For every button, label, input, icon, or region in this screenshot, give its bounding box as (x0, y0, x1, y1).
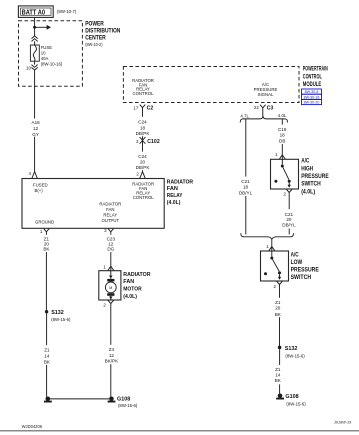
powertrain control module box (123, 66, 328, 103)
wire Z1 14 BK left (41, 313, 53, 396)
svg-text:C2: C2 (147, 106, 154, 112)
svg-text:RELAY: RELAY (103, 212, 117, 217)
wire C18 18 DB 4.0L branch (276, 119, 290, 159)
svg-text:3: 3 (104, 228, 107, 233)
label A/C high pressure switch (301, 158, 329, 196)
svg-text:(8W-15-6): (8W-15-6) (285, 353, 305, 358)
label radiator fan motor (123, 272, 150, 300)
merge brace (241, 233, 294, 239)
svg-text:RADIATOR: RADIATOR (167, 179, 194, 185)
svg-text:10: 10 (26, 65, 31, 70)
label radiator fan relay (167, 179, 194, 206)
svg-text:HIGH: HIGH (301, 165, 313, 172)
svg-text:A/C: A/C (301, 158, 310, 165)
svg-text:J018W-19: J018W-19 (333, 421, 352, 425)
svg-text:C18: C18 (278, 127, 287, 132)
svg-text:BK: BK (275, 378, 282, 383)
svg-text:A/C: A/C (291, 251, 300, 258)
relay pin 1 connector (40, 229, 49, 234)
ground bus wire (50, 398, 109, 400)
svg-text:DISTRIBUTION: DISTRIBUTION (85, 28, 120, 35)
svg-text:8W-30-8: 8W-30-8 (305, 90, 319, 94)
svg-text:(8W-15-6): (8W-15-6) (51, 317, 71, 322)
svg-text:S132: S132 (285, 346, 298, 352)
svg-text:FAN: FAN (106, 207, 114, 212)
svg-text:20: 20 (140, 160, 146, 165)
svg-text:C24: C24 (138, 154, 147, 159)
svg-text:(8W-15-6): (8W-15-6) (118, 403, 138, 408)
svg-text:A16: A16 (32, 120, 41, 125)
split brace 4.7L / 4.0L (240, 113, 287, 123)
svg-text:SIGNAL: SIGNAL (258, 92, 274, 97)
label A/C low pressure switch (291, 251, 319, 281)
svg-text:4.0L: 4.0L (278, 113, 287, 118)
svg-text:C102: C102 (147, 139, 160, 145)
svg-text:PRESSURE: PRESSURE (301, 173, 329, 180)
svg-text:10: 10 (41, 50, 46, 55)
svg-text:GROUND: GROUND (35, 220, 54, 225)
low switch pin 2 connector (274, 281, 283, 289)
svg-text:DB/YL: DB/YL (239, 190, 253, 195)
svg-text:18: 18 (140, 125, 146, 130)
relay pin 4 connector (28, 171, 37, 179)
svg-text:FUSED: FUSED (33, 183, 48, 188)
svg-text:Z1: Z1 (44, 348, 50, 353)
svg-text:12: 12 (109, 353, 115, 358)
svg-text:18: 18 (280, 133, 286, 138)
svg-text:DB/PK: DB/PK (136, 165, 151, 170)
svg-text:S132: S132 (51, 310, 64, 316)
svg-text:MODULE: MODULE (303, 81, 321, 88)
connector chevrons below fuse, pin 10 (26, 65, 38, 71)
radiator fan relay box (22, 179, 164, 229)
svg-text:SWITCH: SWITCH (301, 181, 321, 188)
svg-text:PRESSURE: PRESSURE (291, 267, 319, 274)
svg-text:BK: BK (44, 360, 51, 365)
svg-text:14: 14 (44, 353, 50, 358)
svg-text:CENTER: CENTER (85, 35, 106, 42)
svg-text:BATT A0: BATT A0 (22, 10, 45, 17)
svg-text:1: 1 (40, 229, 43, 234)
connector C3 pin 22 (254, 105, 273, 112)
A/C high pressure switch (271, 159, 299, 189)
svg-text:(4.0L): (4.0L) (301, 188, 315, 195)
hyperlink refs 8W-30 (302, 89, 322, 105)
svg-text:POWER: POWER (85, 20, 104, 27)
svg-text:1: 1 (266, 244, 269, 249)
relay pin 2 connector (136, 171, 145, 178)
svg-text:(8W-15-6): (8W-15-6) (286, 401, 306, 406)
wire battery feed (34, 17, 36, 171)
svg-text:CONTROL: CONTROL (133, 195, 155, 200)
high switch pin 1 connector (275, 152, 285, 159)
svg-text:LOW: LOW (291, 259, 303, 266)
svg-text:DB: DB (279, 138, 285, 143)
svg-text:3: 3 (136, 139, 139, 144)
radiator fan motor (99, 271, 121, 300)
svg-text:C3: C3 (267, 106, 274, 112)
wire C3 stem (262, 111, 264, 117)
svg-text:M: M (109, 286, 112, 290)
arrow branch wire (35, 25, 51, 30)
connector C102 pin 3 (136, 137, 160, 146)
svg-text:RELAY: RELAY (167, 193, 183, 199)
A/C low pressure switch (261, 251, 289, 281)
svg-text:17: 17 (133, 105, 138, 110)
svg-text:BK: BK (275, 312, 282, 317)
svg-text:FAN: FAN (167, 186, 178, 192)
splice S132 left (45, 310, 71, 322)
ground left (44, 397, 52, 403)
svg-text:C24: C24 (138, 119, 147, 124)
svg-text:B(+): B(+) (35, 188, 44, 193)
ground G108 left (108, 396, 138, 408)
motor pin 2 connector (103, 300, 113, 307)
svg-text:G108: G108 (285, 394, 298, 400)
svg-text:22: 22 (254, 105, 259, 110)
svg-text:C21: C21 (241, 179, 250, 184)
wire Z4 12 BK/PK (104, 306, 119, 397)
svg-text:DB/PK: DB/PK (136, 131, 151, 136)
svg-text:4: 4 (28, 171, 31, 176)
svg-text:18: 18 (243, 185, 249, 190)
svg-text:1: 1 (103, 265, 106, 270)
motor pin 1 connector (103, 265, 113, 271)
svg-text:2: 2 (103, 302, 106, 307)
fuse 10 40A (30, 45, 63, 66)
svg-text:FAN: FAN (123, 279, 134, 285)
relay pin 3 connector (104, 228, 113, 234)
power distribution center box (19, 20, 121, 86)
svg-text:1: 1 (275, 152, 278, 157)
svg-text:40A: 40A (41, 56, 49, 61)
svg-text:CONTROL: CONTROL (132, 91, 154, 96)
node splice to other circuit (33, 26, 36, 29)
svg-text:2: 2 (136, 171, 139, 176)
svg-text:POWERTRAIN: POWERTRAIN (303, 66, 328, 73)
svg-text:Z1: Z1 (275, 300, 281, 305)
svg-text:(4.0L): (4.0L) (167, 200, 181, 206)
wire Z1 20 BK right (273, 287, 286, 347)
svg-text:12: 12 (33, 126, 39, 131)
svg-text:CONTROL: CONTROL (303, 73, 322, 80)
svg-text:2: 2 (283, 192, 286, 197)
svg-text:(8W-10-2): (8W-10-2) (85, 42, 103, 47)
svg-text:8W-30-20: 8W-30-20 (304, 101, 320, 105)
svg-text:OUTPUT: OUTPUT (101, 218, 119, 223)
svg-text:RADIATOR: RADIATOR (99, 201, 121, 206)
svg-text:RADIATOR: RADIATOR (123, 272, 150, 278)
svg-text:20: 20 (275, 306, 281, 311)
svg-text:(8W-10-7): (8W-10-7) (57, 9, 77, 14)
svg-text:4.7L: 4.7L (240, 113, 249, 118)
low switch pin 1 connector (266, 239, 274, 251)
svg-text:(8W-10-16): (8W-10-16) (41, 61, 63, 66)
wire C24 18 DB/PK (134, 111, 151, 137)
wire Z1 20 BK left (40, 234, 53, 311)
wire Z1 14 BK right (273, 349, 286, 393)
wire C24 20 DB/PK (134, 144, 151, 172)
svg-text:WJD04206: WJD04206 (22, 424, 43, 429)
svg-text:MOTOR: MOTOR (123, 287, 142, 293)
splice S132 right (278, 346, 305, 359)
ground G108 right (276, 394, 306, 407)
wire C21 20 DB/YL (281, 195, 298, 234)
svg-text:BK/PK: BK/PK (105, 358, 119, 363)
battery feed BATT A0 (18, 6, 76, 18)
high switch pin 2 connector (283, 189, 292, 196)
connector chevrons above fuse (32, 36, 38, 42)
svg-text:DB/YL: DB/YL (282, 223, 296, 228)
wire C23 12 DG (104, 234, 119, 271)
wire C21 18 DB/YL 4.7L branch (237, 119, 255, 234)
wire label A16 12 GY (28, 119, 43, 137)
svg-text:(4.0L): (4.0L) (123, 294, 137, 300)
svg-text:8W-30-16: 8W-30-16 (304, 95, 320, 99)
page border bottom (0, 430, 359, 432)
svg-text:BK: BK (43, 247, 50, 252)
svg-text:SWITCH: SWITCH (291, 274, 312, 281)
svg-text:DG: DG (107, 247, 114, 252)
connector C2 pin 17 (133, 105, 153, 112)
svg-text:20: 20 (286, 217, 292, 222)
svg-text:GY: GY (32, 132, 39, 137)
svg-text:G108: G108 (117, 396, 130, 402)
svg-text:FUSE: FUSE (41, 45, 53, 50)
svg-text:Z4: Z4 (109, 347, 115, 352)
svg-text:14: 14 (275, 372, 281, 377)
svg-text:2: 2 (274, 284, 277, 289)
